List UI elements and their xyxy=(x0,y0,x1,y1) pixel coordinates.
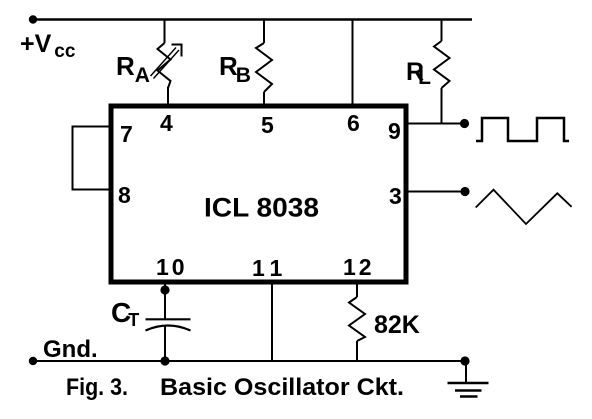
+Vcc rail wire xyxy=(33,18,472,20)
wire: pin 11 to ground rail xyxy=(271,282,273,361)
junction dot pin 9 node xyxy=(460,119,469,128)
ground symbol bar 2 xyxy=(455,389,482,392)
svg-text:3: 3 xyxy=(389,183,402,209)
ground symbol stem xyxy=(465,361,467,383)
potentiometer RA zigzag xyxy=(158,43,171,88)
svg-text:4: 4 xyxy=(160,110,173,136)
ground rail wire xyxy=(33,360,465,362)
junction dot CT at ground rail xyxy=(160,356,169,365)
svg-text:Basic Oscillator Ckt.: Basic Oscillator Ckt. xyxy=(160,374,404,401)
wire: capacitor CT to ground rail xyxy=(164,326,166,361)
svg-text:11: 11 xyxy=(252,255,288,281)
loop wire joining pins 7 and 8 xyxy=(73,127,111,190)
RA arrowhead xyxy=(172,45,182,57)
svg-text:12: 12 xyxy=(343,254,375,280)
svg-text:9: 9 xyxy=(388,118,401,144)
svg-text:6: 6 xyxy=(347,110,360,136)
ground rail left terminal dot xyxy=(29,357,37,365)
wire: RA to pin 4 xyxy=(167,87,169,106)
junction dot ground symbol node xyxy=(460,356,469,365)
triangle wave symbol xyxy=(476,190,572,224)
svg-text:ICL 8038: ICL 8038 xyxy=(204,193,319,223)
ground symbol bar 3 xyxy=(460,395,478,398)
wire: rail to RL xyxy=(441,20,443,42)
capacitor CT bottom plate (curved) xyxy=(146,326,191,331)
resistor RL zigzag xyxy=(434,41,450,88)
wire: rail to RA xyxy=(164,20,166,44)
svg-text:7: 7 xyxy=(120,121,133,147)
square wave symbol xyxy=(476,118,569,141)
resistor 82K zigzag xyxy=(349,297,365,341)
wire: RL to pin 9 node xyxy=(441,88,443,124)
RA wiper arrow shaft xyxy=(151,48,177,77)
svg-text:10: 10 xyxy=(156,254,188,280)
op IC U1 ICL 8038 body xyxy=(111,106,406,282)
junction dot pin 10 xyxy=(160,285,169,294)
svg-text:82K: 82K xyxy=(374,311,420,339)
wire: pin 12 to 82K resistor xyxy=(356,282,358,297)
resistor RB zigzag xyxy=(256,43,272,92)
wire: RB to pin 5 xyxy=(263,92,265,106)
svg-text:Gnd.: Gnd. xyxy=(43,336,98,363)
wire: rail to RB xyxy=(263,20,265,44)
+Vcc terminal dot xyxy=(29,15,37,23)
junction dot pin 3 node xyxy=(460,187,469,196)
wire: rail to pin 6 xyxy=(352,20,354,107)
pin 3 output wire xyxy=(406,191,465,193)
wire: 82K resistor to ground rail xyxy=(356,341,358,361)
svg-text:5: 5 xyxy=(261,112,274,138)
svg-text:Fig. 3.: Fig. 3. xyxy=(66,374,128,401)
svg-text:8: 8 xyxy=(118,182,131,208)
wire: pin 10 to capacitor CT xyxy=(164,282,166,319)
pin 9 output wire xyxy=(406,123,464,125)
capacitor CT top plate xyxy=(146,318,191,320)
ground symbol bar 1 xyxy=(448,382,489,385)
